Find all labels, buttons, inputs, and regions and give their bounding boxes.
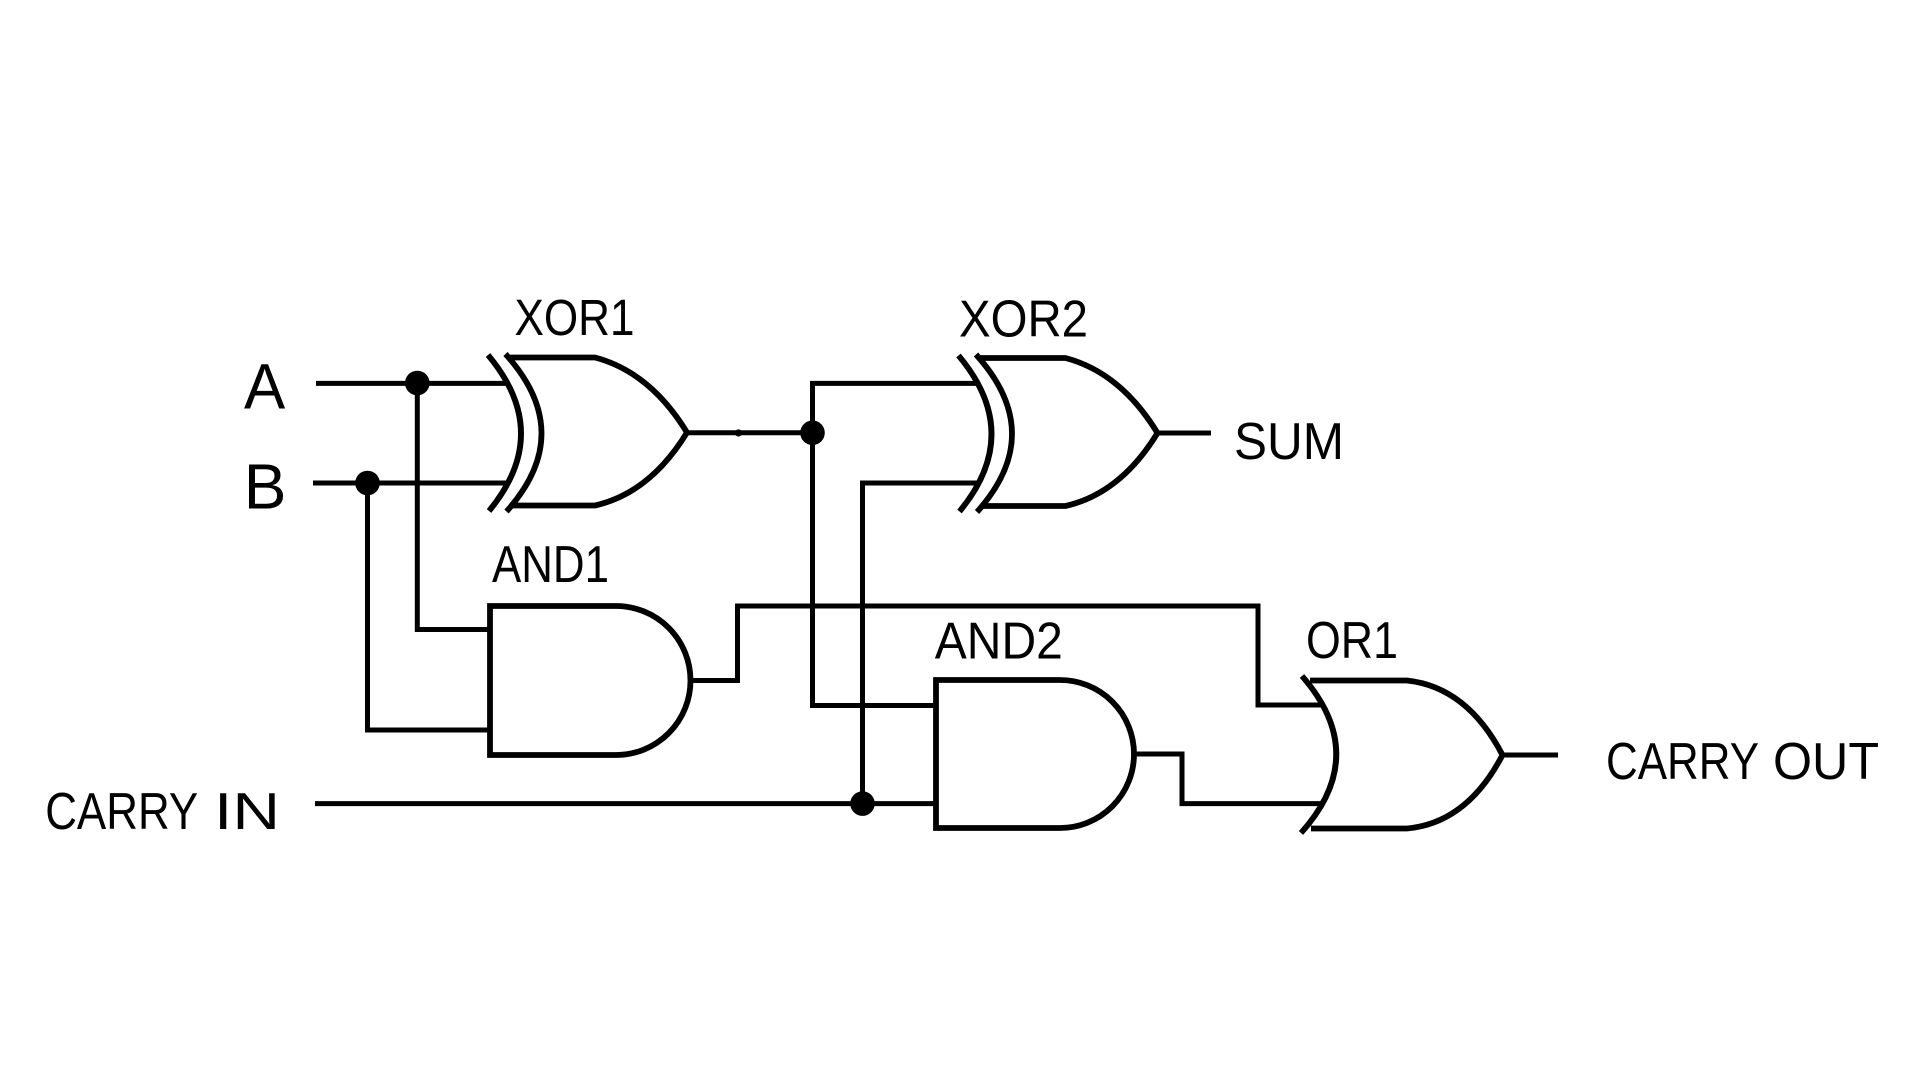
wire input A lead bbox=[316, 381, 508, 386]
svg-text:OUT: OUT bbox=[1773, 733, 1879, 791]
wire input B lead bbox=[313, 481, 508, 486]
svg-text:XOR2: XOR2 bbox=[959, 290, 1088, 348]
junction dot node S1 at XOR1 output bbox=[800, 421, 825, 446]
and gate AND1 bbox=[490, 606, 691, 755]
xor gate XOR2 bbox=[959, 355, 1158, 513]
wire CARRY IN bbox=[315, 801, 938, 806]
svg-text:XOR1: XOR1 bbox=[515, 289, 635, 346]
svg-text:AND1: AND1 bbox=[492, 536, 609, 594]
svg-text:OR1: OR1 bbox=[1306, 612, 1398, 670]
svg-text:B: B bbox=[244, 451, 287, 523]
svg-text:CARRY: CARRY bbox=[45, 783, 198, 841]
wire OR1 output to CARRY OUT bbox=[1503, 753, 1559, 758]
svg-text:IN: IN bbox=[214, 783, 280, 841]
wire CARRY IN branch up to XOR2 input 2 bbox=[863, 483, 978, 804]
junction dot on CARRY IN at x=862 bbox=[850, 791, 875, 816]
wire node S1 down to AND2 input 1 bbox=[813, 433, 939, 706]
and gate AND2 bbox=[936, 680, 1134, 828]
connector tick on XOR1 output wire bbox=[735, 429, 742, 436]
wire AND2 output to OR1 input 2 bbox=[1134, 754, 1322, 804]
svg-text:AND2: AND2 bbox=[935, 613, 1063, 671]
wire XOR2 output to SUM bbox=[1158, 431, 1211, 436]
xor gate XOR1 bbox=[488, 354, 687, 512]
or gate OR1 bbox=[1301, 676, 1503, 833]
wire node S1 up to XOR2 input 1 bbox=[813, 383, 978, 432]
wire A riser to AND1 input 1 bbox=[417, 383, 491, 629]
junction dot on A at x=417 bbox=[405, 371, 430, 396]
wire B riser to AND1 input 2 bbox=[368, 483, 492, 730]
junction dot on B at x=367 bbox=[355, 471, 380, 496]
svg-text:A: A bbox=[244, 351, 286, 423]
svg-text:CARRY: CARRY bbox=[1606, 733, 1759, 791]
wire AND1 output to OR1 input 1 bbox=[691, 606, 1324, 705]
svg-text:SUM: SUM bbox=[1234, 413, 1344, 471]
wire XOR1 output to node S1 bbox=[687, 430, 813, 435]
